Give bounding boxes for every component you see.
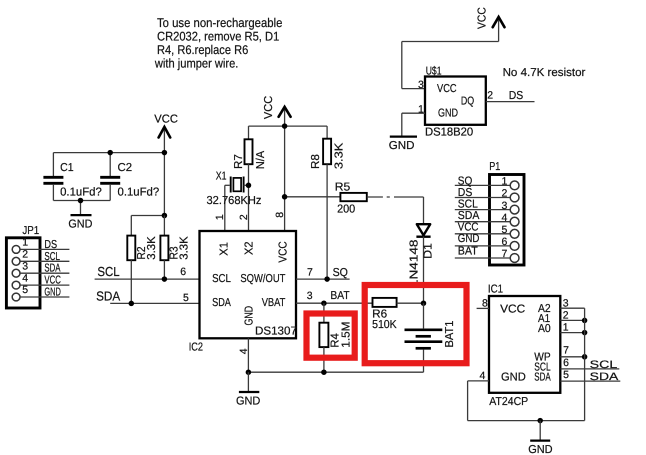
svg-text:5: 5 bbox=[502, 224, 508, 236]
svg-text:3: 3 bbox=[563, 297, 569, 309]
svg-text:2: 2 bbox=[563, 310, 569, 322]
svg-text:510K: 510K bbox=[372, 319, 397, 331]
svg-text:GND: GND bbox=[528, 444, 552, 455]
svg-text:No 4.7K resistor: No 4.7K resistor bbox=[503, 67, 586, 79]
svg-text:D1: D1 bbox=[422, 243, 434, 259]
svg-text:SCL: SCL bbox=[97, 264, 119, 279]
svg-text:C2: C2 bbox=[118, 162, 133, 174]
svg-text:SDA: SDA bbox=[458, 210, 480, 222]
svg-text:VCC: VCC bbox=[500, 304, 525, 316]
svg-text:VCC: VCC bbox=[263, 96, 275, 119]
svg-text:6: 6 bbox=[502, 236, 508, 248]
svg-text:To use non-rechargeable: To use non-rechargeable bbox=[157, 16, 282, 30]
svg-text:200: 200 bbox=[337, 203, 355, 215]
svg-text:3.3K: 3.3K bbox=[334, 142, 346, 169]
svg-text:3.3K: 3.3K bbox=[146, 236, 158, 260]
svg-text:SDA: SDA bbox=[590, 371, 620, 383]
svg-text:VCC: VCC bbox=[437, 83, 457, 95]
svg-text:R7: R7 bbox=[233, 154, 245, 169]
svg-text:SCL: SCL bbox=[590, 359, 618, 371]
svg-text:VCC: VCC bbox=[476, 7, 488, 29]
svg-text:2: 2 bbox=[238, 214, 250, 220]
svg-text:6: 6 bbox=[563, 357, 569, 369]
svg-text:0.1uFd?: 0.1uFd? bbox=[118, 186, 160, 198]
svg-text:GND: GND bbox=[501, 372, 526, 384]
svg-text:3: 3 bbox=[502, 200, 508, 212]
svg-text:SCL: SCL bbox=[212, 273, 231, 285]
svg-text:R4, R6.replace R6: R4, R6.replace R6 bbox=[157, 43, 248, 57]
svg-text:VCC: VCC bbox=[458, 222, 479, 234]
svg-text:BAT1: BAT1 bbox=[444, 321, 456, 348]
svg-text:BAT: BAT bbox=[458, 245, 478, 257]
svg-text:VBAT: VBAT bbox=[262, 297, 286, 309]
svg-text:3: 3 bbox=[22, 260, 28, 272]
svg-text:GND: GND bbox=[68, 218, 92, 230]
svg-text:X2: X2 bbox=[243, 241, 255, 255]
svg-text:DS: DS bbox=[44, 239, 57, 251]
svg-text:A0: A0 bbox=[538, 323, 551, 335]
svg-text:N/A: N/A bbox=[255, 151, 267, 170]
svg-text:SQ: SQ bbox=[458, 175, 473, 187]
svg-text:JP1: JP1 bbox=[22, 225, 39, 237]
svg-text:SQ: SQ bbox=[333, 267, 348, 279]
svg-text:6: 6 bbox=[180, 266, 186, 278]
svg-text:DS18B20: DS18B20 bbox=[425, 126, 473, 138]
svg-text:GND: GND bbox=[44, 287, 61, 299]
svg-text:with jumper wire.: with jumper wire. bbox=[154, 57, 238, 71]
svg-text:4: 4 bbox=[502, 212, 508, 224]
svg-text:2: 2 bbox=[487, 89, 493, 101]
svg-text:5: 5 bbox=[183, 292, 189, 304]
svg-text:1: 1 bbox=[563, 322, 569, 334]
svg-text:8: 8 bbox=[274, 212, 286, 218]
svg-text:4: 4 bbox=[22, 272, 28, 284]
svg-text:X1: X1 bbox=[219, 242, 231, 256]
svg-text:DS: DS bbox=[509, 90, 524, 102]
svg-text:2: 2 bbox=[502, 188, 508, 200]
svg-text:32.768KHz: 32.768KHz bbox=[207, 195, 262, 207]
svg-text:DQ: DQ bbox=[461, 96, 474, 108]
svg-text:U$1: U$1 bbox=[426, 65, 442, 77]
svg-text:3: 3 bbox=[307, 290, 313, 302]
svg-text:7: 7 bbox=[563, 345, 569, 357]
svg-text:VCC: VCC bbox=[278, 241, 290, 262]
svg-text:SDA: SDA bbox=[44, 263, 60, 275]
svg-text:GND: GND bbox=[438, 108, 458, 120]
svg-text:0.1uFd?: 0.1uFd? bbox=[60, 186, 102, 198]
svg-text:1: 1 bbox=[22, 237, 28, 249]
svg-text:SCL: SCL bbox=[458, 199, 479, 211]
svg-text:P1: P1 bbox=[489, 161, 500, 173]
svg-text:4: 4 bbox=[480, 370, 486, 382]
svg-text:SCL: SCL bbox=[44, 251, 60, 263]
svg-text:SDA: SDA bbox=[534, 372, 551, 384]
svg-text:C1: C1 bbox=[60, 162, 74, 174]
svg-text:GND: GND bbox=[389, 140, 415, 152]
svg-text:IC1: IC1 bbox=[488, 284, 503, 296]
svg-text:1: 1 bbox=[214, 214, 226, 220]
svg-text:VCC: VCC bbox=[154, 114, 178, 126]
svg-text:GND: GND bbox=[236, 396, 260, 408]
svg-text:7: 7 bbox=[307, 267, 313, 279]
svg-text:DS1307: DS1307 bbox=[255, 326, 297, 338]
svg-text:GND: GND bbox=[244, 306, 256, 326]
svg-text:2: 2 bbox=[22, 249, 28, 261]
svg-text:AT24CP: AT24CP bbox=[489, 396, 528, 408]
svg-text:SDA: SDA bbox=[96, 289, 120, 304]
svg-text:SDA: SDA bbox=[212, 297, 231, 309]
svg-text:3.3K: 3.3K bbox=[179, 236, 191, 260]
svg-text:8: 8 bbox=[482, 298, 488, 310]
svg-text:CR2032, remove R5, D1: CR2032, remove R5, D1 bbox=[157, 30, 279, 44]
svg-text:5: 5 bbox=[22, 284, 28, 296]
svg-text:1N4148: 1N4148 bbox=[409, 240, 421, 288]
svg-text:5: 5 bbox=[563, 369, 569, 381]
svg-text:7: 7 bbox=[502, 248, 508, 260]
svg-text:3: 3 bbox=[418, 79, 424, 91]
svg-text:BAT: BAT bbox=[330, 290, 349, 302]
svg-text:1.5M: 1.5M bbox=[340, 322, 352, 348]
svg-text:IC2: IC2 bbox=[189, 342, 203, 354]
svg-text:1: 1 bbox=[502, 176, 508, 188]
svg-text:DS: DS bbox=[458, 187, 473, 199]
svg-text:R5: R5 bbox=[335, 181, 351, 193]
svg-text:4: 4 bbox=[238, 348, 250, 354]
svg-text:X1: X1 bbox=[216, 170, 227, 182]
svg-text:R8: R8 bbox=[310, 154, 322, 169]
svg-text:SQW/OUT: SQW/OUT bbox=[240, 273, 285, 285]
svg-text:GND: GND bbox=[458, 233, 480, 245]
svg-text:VCC: VCC bbox=[44, 275, 61, 287]
